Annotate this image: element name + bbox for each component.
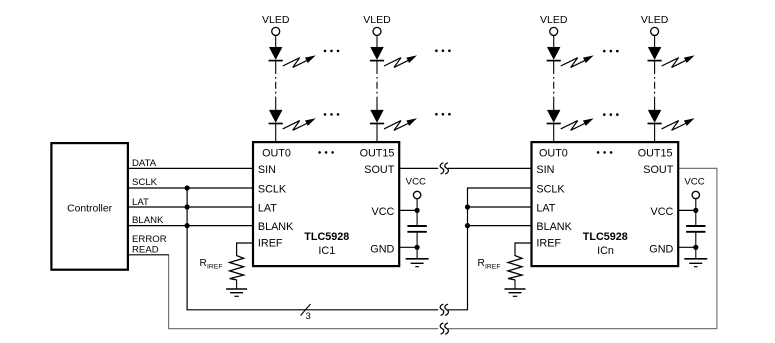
svg-text:SCLK: SCLK	[132, 177, 158, 188]
svg-text:SCLK: SCLK	[258, 184, 287, 196]
svg-text:READ: READ	[132, 244, 159, 255]
svg-text:IREF: IREF	[207, 264, 222, 271]
svg-text:GND: GND	[649, 244, 673, 256]
svg-text:OUT15: OUT15	[360, 147, 395, 159]
svg-text:SIN: SIN	[536, 164, 554, 176]
svg-text:R: R	[200, 258, 207, 269]
svg-text:VCC: VCC	[372, 206, 395, 218]
svg-text:BLANK: BLANK	[536, 221, 572, 233]
svg-text:OUT15: OUT15	[638, 147, 673, 159]
svg-text:IREF: IREF	[485, 264, 500, 271]
svg-text:TLC5928: TLC5928	[304, 231, 349, 243]
svg-text:R: R	[478, 258, 485, 269]
svg-text:DATA: DATA	[132, 158, 157, 169]
svg-text:ICn: ICn	[597, 245, 614, 257]
svg-text:SCLK: SCLK	[536, 184, 565, 196]
svg-text:IREF: IREF	[258, 237, 283, 249]
svg-text:Controller: Controller	[67, 203, 113, 214]
svg-text:IREF: IREF	[536, 237, 561, 249]
svg-text:GND: GND	[370, 244, 394, 256]
svg-text:3: 3	[306, 311, 311, 322]
svg-text:OUT0: OUT0	[262, 147, 291, 159]
svg-text:SIN: SIN	[258, 164, 276, 176]
svg-text:VCC: VCC	[651, 206, 674, 218]
svg-text:SOUT: SOUT	[643, 164, 673, 176]
svg-text:BLANK: BLANK	[132, 215, 164, 226]
svg-text:LAT: LAT	[536, 203, 555, 215]
svg-text:OUT0: OUT0	[539, 147, 568, 159]
svg-text:LAT: LAT	[258, 203, 277, 215]
svg-text:IC1: IC1	[318, 245, 335, 257]
svg-text:LAT: LAT	[132, 197, 149, 208]
svg-text:TLC5928: TLC5928	[583, 231, 628, 243]
svg-text:BLANK: BLANK	[258, 221, 294, 233]
svg-text:SOUT: SOUT	[364, 164, 394, 176]
